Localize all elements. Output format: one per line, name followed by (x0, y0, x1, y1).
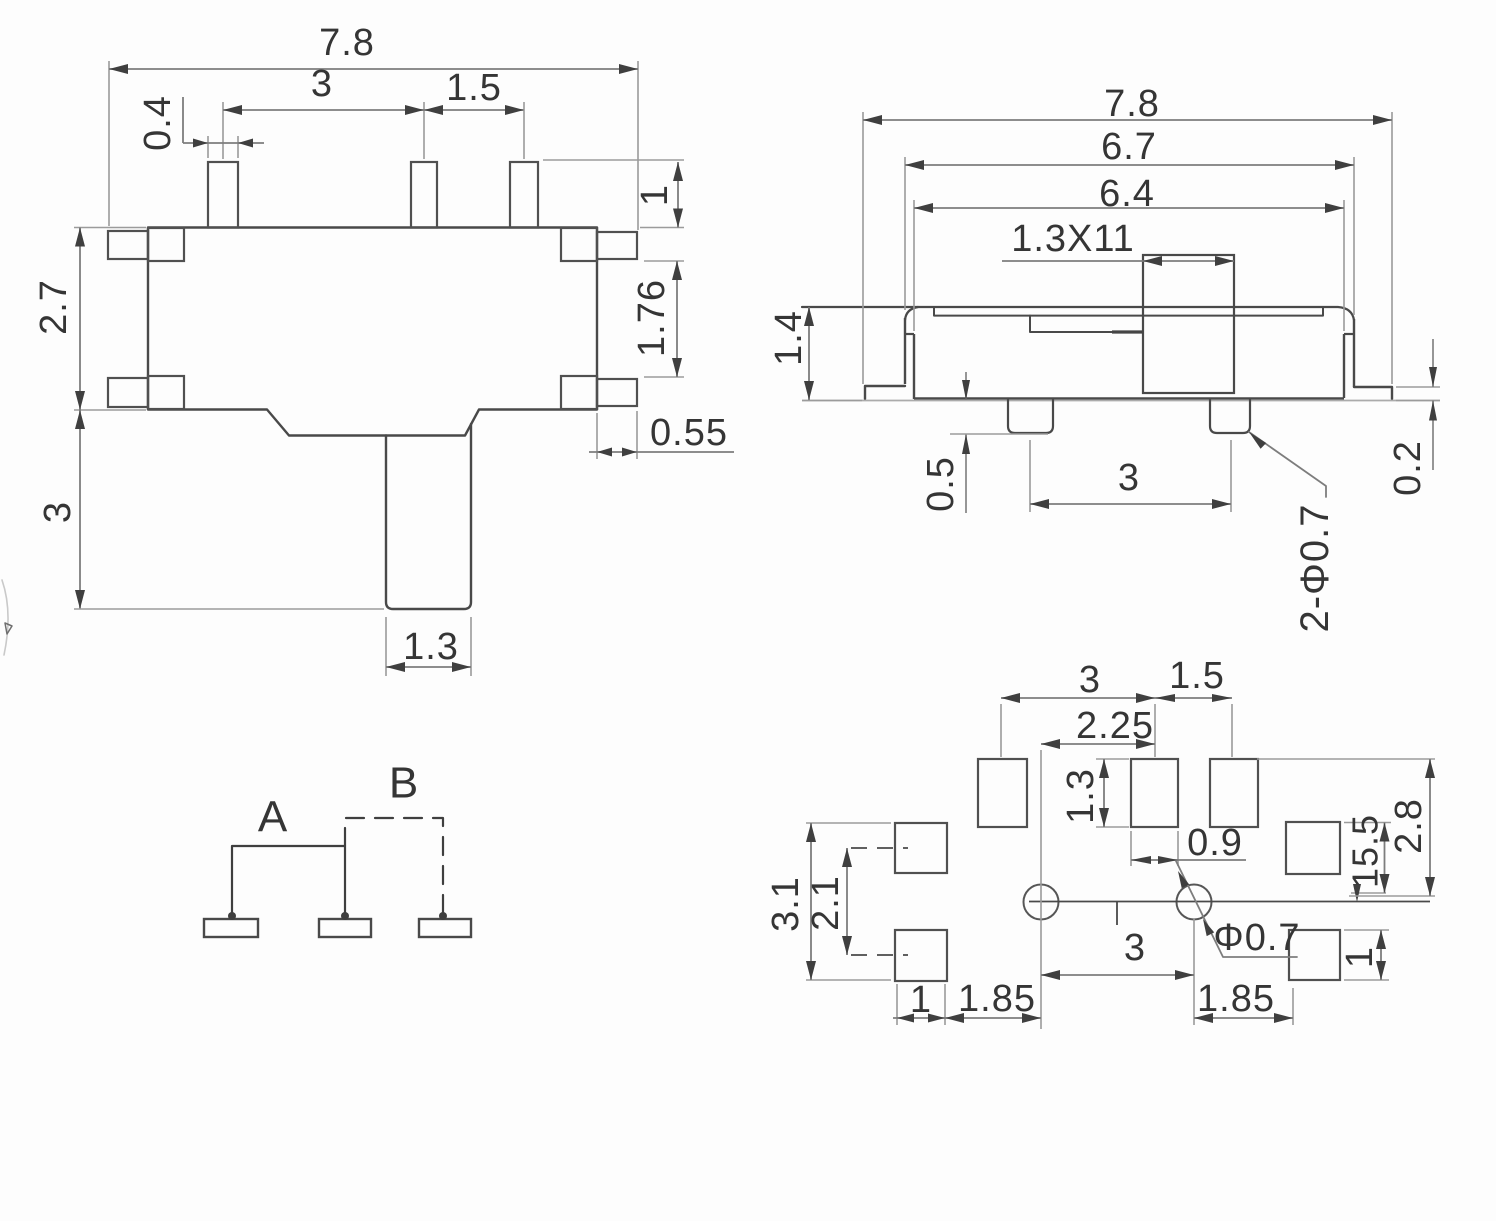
svg-text:1.3X11: 1.3X11 (1011, 218, 1135, 260)
svg-text:3: 3 (311, 63, 333, 105)
land pattern: top pad C (1210, 759, 1258, 827)
side view: cover top left corner (905, 307, 918, 320)
front view: top-right corner pad inner square (561, 228, 597, 261)
scan artifact left edge faint curve (2, 580, 8, 655)
land pattern dim 1.85 (right): extension line (1292, 988, 1294, 1025)
front view dim 2.7: dimension line (79, 228, 81, 411)
land pattern: top pad A (978, 759, 1027, 827)
side view: seating plane line (802, 400, 1440, 402)
land pattern: dashed centerline upper (851, 847, 908, 849)
svg-text:2-Φ0.7: 2-Φ0.7 (1293, 503, 1337, 632)
svg-text:1.85: 1.85 (958, 978, 1036, 1020)
land pattern dim 0.9: dimension line (1131, 859, 1246, 861)
front view: top-right corner pad outer tab (597, 232, 637, 259)
side view dim 6.7: extension lines (904, 157, 906, 310)
front view dim 1.5: arrows (424, 105, 443, 115)
land pattern dim 1 (left): dimension line (893, 1017, 945, 1019)
land pattern: top pad B (1131, 759, 1178, 827)
front view dim 7.8: dimension line (109, 68, 638, 70)
side view: body bottom edge (914, 397, 1344, 399)
land pattern: dashed centerline lower (851, 954, 908, 956)
schematic: junction dot terminal 2 (341, 912, 349, 920)
side view dim 0.5: lower arrow (965, 434, 967, 513)
front view dim 7.8: extension lines (108, 61, 110, 226)
side view: slider inner arm dark end (1112, 330, 1143, 333)
side view: right body wall (1343, 334, 1345, 398)
side view: left step (905, 333, 914, 335)
svg-text:1: 1 (1339, 946, 1381, 968)
svg-text:0.9: 0.9 (1187, 822, 1243, 864)
side view: actuator knob block (1143, 255, 1234, 393)
svg-text:0.5: 0.5 (920, 456, 962, 512)
land pattern dim 1.5 (top): extension line (1231, 704, 1233, 757)
side view: left body wall (913, 334, 915, 399)
land pattern dim 2.1: dimension line (846, 848, 848, 955)
front view: bottom-right corner pad inner square (561, 376, 597, 409)
land pattern dim 3.1: dimension line (810, 823, 812, 980)
svg-text:1.4: 1.4 (768, 310, 810, 366)
svg-text:0.55: 0.55 (650, 412, 728, 454)
front view dim 1.76: extension lines (644, 260, 684, 262)
svg-text:3: 3 (37, 501, 79, 523)
svg-text:6.7: 6.7 (1101, 126, 1157, 168)
svg-text:2.25: 2.25 (1076, 705, 1154, 747)
svg-text:3: 3 (1079, 659, 1101, 701)
land pattern label phi0.7: leader line (1176, 861, 1297, 957)
land pattern dim 3.1: extension lines (806, 822, 891, 824)
land pattern dim 2.25: dimension line (1041, 743, 1155, 745)
land pattern: centerline through circles (1029, 901, 1430, 903)
land pattern dim 2.8: dimension line (1429, 759, 1431, 896)
land pattern dim 1.5: dimension line (1155, 697, 1232, 699)
side view: post 1 (left solder post) (1008, 399, 1053, 433)
land pattern: left side pad upper (895, 823, 947, 873)
front view: bottom-left corner pad inner square (148, 376, 184, 409)
front view: bottom-left corner pad outer tab (108, 378, 148, 407)
front view dim 0.55: dimension line and arrows (589, 451, 734, 453)
front view dim 0.4: dimension line and arrows (183, 142, 264, 144)
front view dim 0.4: leader vertical (182, 97, 184, 143)
schematic: terminal 1 (204, 919, 258, 937)
side view dim 1.4: dimension line (808, 307, 810, 400)
side view dim 3: dimension line (1030, 503, 1231, 505)
front view dim 0.55: extension lines (596, 413, 598, 459)
side view: slider inner arm (1030, 316, 1112, 332)
svg-text:Φ0.7: Φ0.7 (1213, 917, 1300, 959)
side view: post 2 (right solder post) (1210, 399, 1250, 433)
land pattern dim 1.85 (left): dimension line (945, 1017, 1041, 1019)
svg-text:0.4: 0.4 (137, 95, 179, 151)
svg-text:0.2: 0.2 (1387, 440, 1429, 496)
side view dim 7.8: extension lines (862, 112, 864, 384)
side view dim 6.4: extension lines (913, 200, 915, 331)
land pattern dim 2.8: extension lines (1257, 758, 1435, 760)
svg-text:1.76: 1.76 (631, 279, 673, 357)
svg-text:6.4: 6.4 (1099, 173, 1155, 215)
side view dim 6.4: dimension line (914, 207, 1344, 209)
svg-text:2.8: 2.8 (1388, 798, 1430, 854)
land pattern dim 1 (right): extension lines (1344, 929, 1389, 931)
front view dim 0.4: extension lines (207, 136, 209, 158)
svg-text:1.85: 1.85 (1197, 978, 1275, 1020)
land pattern dim 3 (top): extension lines (1000, 704, 1002, 757)
svg-text:1.5: 1.5 (446, 67, 502, 109)
land pattern: centerline tick (1116, 902, 1118, 925)
svg-text:15.5: 15.5 (1345, 814, 1386, 888)
front view: slider stem (386, 424, 471, 609)
schematic: junction dot terminal 3 (439, 912, 447, 920)
side view: left cover tab outer edge (904, 318, 906, 384)
svg-text:1.5: 1.5 (1169, 655, 1225, 697)
svg-text:3.1: 3.1 (765, 876, 807, 932)
side view: left terminal foot (865, 386, 905, 399)
front view dim 3 (stem height): dimension line (79, 410, 81, 609)
land pattern: right side pad lower (1289, 930, 1340, 980)
front view: switch body outline (148, 228, 597, 436)
land pattern dim 1.3: extension ticks (1096, 758, 1129, 760)
side view dim 0.5: extension line (950, 433, 1048, 435)
land pattern dim 2.25: extension line through circle 1 (1040, 750, 1042, 1029)
side view label 2-phi0.7: leader (1249, 432, 1326, 497)
land pattern dim 3 (bottom): extension line (1193, 919, 1195, 1025)
side view: right step (1344, 333, 1354, 335)
side view dim 7.8: dimension line (863, 119, 1392, 121)
svg-text:7.8: 7.8 (1104, 83, 1160, 125)
side view: cover top line (802, 307, 1354, 320)
land pattern: left side pad lower (895, 930, 947, 981)
land pattern dim 1 (right): dimension line (1380, 930, 1382, 980)
front view dim 1.5: extension line (523, 102, 525, 159)
front view: pin 3 (510, 162, 538, 228)
front view dim 1.3 (stem width): extension lines (385, 617, 387, 676)
svg-text:2.7: 2.7 (33, 279, 75, 335)
schematic: position B bracket (dashed) (345, 818, 443, 912)
side view: cover inner top line with end jogs (934, 307, 1323, 316)
schematic: junction dot terminal 1 (228, 912, 236, 920)
front view dim 2.7: extension lines (74, 227, 146, 229)
svg-text:3: 3 (1124, 927, 1146, 969)
front view dim 1 (pin height): extension lines (543, 159, 684, 161)
side view dim 6.7: dimension line (905, 164, 1354, 166)
svg-text:1: 1 (634, 184, 676, 206)
svg-text:A: A (258, 793, 288, 842)
svg-text:B: B (389, 759, 419, 808)
land pattern dim 1.3: dimension line (1103, 759, 1105, 827)
land pattern: right side pad upper (1286, 822, 1340, 874)
side view dim 3 (post pitch): extension lines (1029, 440, 1031, 512)
front view dim 1: dimension line (677, 162, 679, 228)
front view dim 1.3: dimension line (386, 666, 471, 668)
land pattern dim 15.5: dimension line (1384, 823, 1386, 894)
land pattern dim 1.85 (right): dimension line (1194, 1017, 1293, 1019)
front view: top-left corner pad inner square (148, 228, 184, 261)
svg-text:1.3: 1.3 (1060, 768, 1102, 824)
side view dim 0.5: upper arrow (965, 372, 967, 400)
svg-text:3: 3 (1118, 457, 1140, 499)
land pattern dim 0.9: extension lines (1130, 831, 1132, 866)
svg-text:1.3: 1.3 (403, 626, 459, 668)
land pattern dim 15.5: extension ticks (1344, 822, 1391, 824)
schematic: terminal 2 (319, 919, 371, 937)
schematic: position A bracket (solid) (232, 846, 345, 916)
side view: right terminal foot (1354, 387, 1392, 399)
front view dim 3: dimension line (223, 109, 524, 111)
land pattern: hole circle 2 (1177, 885, 1212, 920)
front view dim 1.76: dimension line (676, 261, 678, 377)
land pattern dim 3 (top): dimension line (1001, 697, 1155, 699)
land pattern dim 3 (bottom): dimension line (1041, 974, 1194, 976)
side view dim 0.2: arrows (1432, 339, 1434, 387)
land pattern: hole circle 1 (1024, 885, 1059, 920)
side view dim 1.3X11: dimension line (1002, 260, 1234, 262)
front view dim 3 (pin pitch): extension lines (222, 102, 224, 159)
scan artifact left edge dark mark (5, 623, 12, 634)
svg-text:2.1: 2.1 (805, 875, 847, 931)
side view: right cover tab outer edge (1353, 319, 1355, 387)
front view: pin 2 (411, 162, 437, 228)
svg-text:7.8: 7.8 (319, 22, 375, 64)
front view: bottom-right corner pad outer tab (597, 379, 637, 406)
side view dim 0.2: extension lines (1396, 386, 1440, 388)
schematic: terminal 3 (419, 919, 471, 937)
side view dim 1.4: extension line (802, 400, 862, 402)
land pattern dim 1 (left): extension lines (896, 984, 898, 1025)
front view: top-left corner pad outer tab (108, 231, 148, 259)
front view dim 3 (stem height): extension line (74, 608, 384, 610)
front view: pin 1 (208, 162, 238, 228)
svg-text:1: 1 (910, 979, 932, 1021)
